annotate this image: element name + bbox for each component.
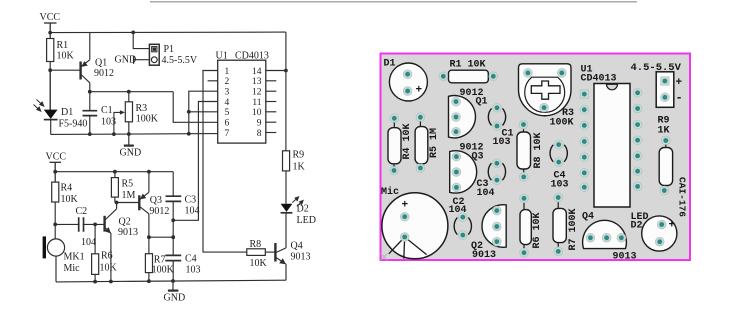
svg-text:C4: C4 bbox=[185, 254, 197, 265]
svg-text:103: 103 bbox=[493, 137, 511, 148]
pad U1 right 2 bbox=[633, 104, 642, 113]
pad Q3 c bbox=[452, 183, 461, 192]
wire node to Q1 base bbox=[50, 69, 80, 71]
node R7 bottom on ground rail bbox=[147, 279, 151, 283]
node R6 bottom on ground rail bbox=[93, 280, 97, 284]
PCB potentiometer R3 footprint bbox=[519, 64, 572, 116]
Q3 emitter arrow (PNP, into base) bbox=[140, 194, 146, 200]
svg-text:104: 104 bbox=[185, 206, 200, 217]
svg-text:9013: 9013 bbox=[613, 252, 637, 263]
pad P1 plus (square) bbox=[661, 77, 669, 85]
PCB resistor R5 footprint bbox=[415, 127, 428, 164]
pad mic + bbox=[400, 212, 409, 221]
D1 incident light arrows bbox=[34, 100, 44, 112]
R3 rotor circle bbox=[525, 77, 565, 112]
pad D2 anode bbox=[657, 220, 666, 229]
pad C3 top bbox=[493, 159, 502, 168]
PCB resistor R4 footprint bbox=[388, 128, 401, 164]
pad C1 top bbox=[493, 103, 502, 112]
wire U1 pin 9 stub bbox=[266, 121, 277, 123]
pad R6 bottom bbox=[520, 248, 529, 257]
wire R9 to D2 bbox=[285, 171, 287, 204]
wire mic node to C2 to Q2 base bbox=[55, 223, 104, 225]
svg-text:10K: 10K bbox=[250, 258, 268, 269]
pad R1 right bbox=[489, 72, 498, 81]
PCB resistor R8 footprint bbox=[517, 132, 531, 169]
wire ground rail (top section) to U1 pin 7 bbox=[51, 133, 218, 136]
pad C1 bottom bbox=[493, 122, 502, 131]
svg-text:1K: 1K bbox=[658, 126, 670, 137]
wire VCC drop to R9 bbox=[285, 32, 287, 151]
svg-text:4.5-5.5V: 4.5-5.5V bbox=[162, 55, 198, 66]
svg-text:VCC: VCC bbox=[46, 152, 67, 163]
transistor Q4 bbox=[275, 243, 286, 280]
svg-text:+: + bbox=[676, 77, 683, 89]
node Q1 collector junction bbox=[88, 90, 92, 94]
Q1 emitter arrow (PNP, into base) bbox=[81, 61, 87, 67]
svg-text:104: 104 bbox=[81, 237, 96, 248]
wire VCC top rail bbox=[50, 31, 286, 34]
pad Q1 e bbox=[452, 97, 461, 106]
pad Q2 e bbox=[492, 206, 501, 215]
capacitor C1 bbox=[83, 92, 98, 135]
wire ground rail (bottom section) bbox=[56, 280, 286, 282]
node Q3 emitter on VCC rail bbox=[147, 170, 151, 174]
svg-text:-: - bbox=[676, 91, 683, 105]
svg-text:C1: C1 bbox=[101, 105, 113, 116]
svg-text:R6 10K: R6 10K bbox=[532, 212, 543, 248]
svg-text:100K: 100K bbox=[152, 264, 175, 275]
svg-text:9012: 9012 bbox=[149, 206, 169, 217]
PCB transistor Q4 footprint bbox=[583, 220, 627, 248]
PCB transistor Q3 footprint bbox=[450, 151, 477, 193]
resistor R5 bbox=[111, 178, 118, 198]
GND terminal tick at P1 bbox=[133, 56, 135, 64]
svg-text:MK1: MK1 bbox=[64, 252, 85, 263]
PCB microphone footprint bbox=[382, 193, 448, 259]
svg-text:10K: 10K bbox=[100, 263, 118, 274]
pad R7 top bbox=[554, 193, 563, 202]
pad Q4 e bbox=[586, 233, 595, 242]
node C4 bottom / GND stub bbox=[171, 279, 175, 283]
svg-text:+: + bbox=[416, 85, 423, 97]
svg-text:Mic: Mic bbox=[381, 186, 399, 198]
pad mic - bbox=[400, 233, 409, 242]
wire collector rail to U1 pin 6 bbox=[173, 92, 218, 123]
pad R4 top bbox=[390, 114, 399, 123]
svg-text:1M: 1M bbox=[122, 190, 136, 201]
pad U1 left 5 bbox=[580, 153, 589, 162]
node R5 top on VCC rail bbox=[113, 170, 117, 174]
R3 screw slot bbox=[531, 81, 560, 99]
VCC symbol (top) bbox=[44, 23, 57, 39]
pad C3 bottom bbox=[493, 176, 502, 185]
scan artifact line bbox=[150, 1, 637, 2]
svg-text:104: 104 bbox=[449, 205, 467, 216]
pad Q1 b bbox=[452, 113, 461, 122]
pad U1 right 5 bbox=[633, 152, 642, 161]
wire R3 bottom bbox=[128, 122, 130, 134]
wire VCC rail to P1 pin 1 bbox=[133, 32, 149, 48]
svg-text:1K: 1K bbox=[293, 162, 306, 173]
wire to R7 top bbox=[148, 237, 150, 254]
svg-text:Q4: Q4 bbox=[291, 241, 303, 252]
wire U1 pin 8 stub bbox=[266, 132, 277, 134]
pad R3 left bbox=[524, 69, 533, 78]
transistor Q3 bbox=[139, 172, 149, 238]
resistor R6 bbox=[92, 254, 99, 275]
svg-text:14: 14 bbox=[252, 67, 262, 77]
resistor R9 bbox=[283, 151, 290, 171]
PCB resistor R6 footprint bbox=[520, 210, 531, 245]
svg-text:GND: GND bbox=[164, 293, 186, 304]
svg-text:9013: 9013 bbox=[118, 227, 138, 238]
svg-text:R4: R4 bbox=[61, 183, 73, 194]
svg-text:R8: R8 bbox=[250, 239, 262, 250]
pad R7 bottom bbox=[554, 247, 563, 256]
wire U1 pin 10 stub bbox=[266, 111, 277, 113]
pad U1 left 2 bbox=[580, 105, 589, 114]
node pin 14 on VCC drop bbox=[284, 69, 288, 73]
wire R5 top bbox=[114, 172, 116, 178]
svg-text:D1: D1 bbox=[384, 59, 396, 70]
svg-text:Q2: Q2 bbox=[119, 217, 131, 228]
svg-text:9012: 9012 bbox=[94, 68, 114, 79]
svg-text:10K: 10K bbox=[57, 51, 75, 62]
node VCC rail junction at R1 top bbox=[48, 31, 52, 35]
Q2 emitter arrow (NPN, out) bbox=[105, 227, 111, 233]
wire U1 pin 1 to R8 bbox=[203, 71, 247, 253]
node R6 top junction bbox=[93, 223, 97, 227]
photodiode D1 F5-940 bbox=[44, 70, 58, 134]
svg-text:R4 10K: R4 10K bbox=[402, 123, 413, 159]
PCB capacitor C4 outline bbox=[550, 145, 567, 162]
capacitor C4 bbox=[165, 237, 181, 280]
wire U1 pin 12 stub bbox=[266, 90, 277, 92]
wire to Q3 base bbox=[115, 202, 139, 204]
node C4 top junction bbox=[171, 235, 175, 239]
capacitor C3 bbox=[166, 172, 182, 221]
pad R1 left bbox=[439, 72, 448, 81]
pad Q4 c bbox=[617, 233, 626, 242]
node R5/Q2 collector/Q3 base bbox=[115, 201, 119, 205]
svg-text:+: + bbox=[402, 200, 409, 212]
microphone MK1 bbox=[43, 224, 65, 282]
D2 emitted light arrows bbox=[292, 197, 303, 207]
pad R3 wiper bbox=[540, 103, 549, 112]
svg-text:10: 10 bbox=[252, 108, 262, 118]
svg-text:D1: D1 bbox=[61, 107, 73, 118]
PCB transistor Q2 footprint bbox=[482, 205, 506, 248]
resistor R8 bbox=[247, 249, 265, 256]
pad C4 top bbox=[554, 140, 563, 149]
pad R6 top bbox=[520, 194, 529, 203]
pad R5 top bbox=[416, 113, 425, 122]
pad R9 top bbox=[661, 136, 670, 145]
transistor Q1 bbox=[81, 33, 90, 92]
node P1 branch on VCC rail bbox=[131, 31, 135, 35]
component lead stubs bbox=[394, 122, 666, 249]
PCB LED D2 footprint bbox=[642, 216, 677, 251]
pad C2 bottom bbox=[458, 231, 467, 240]
svg-text:R1: R1 bbox=[57, 40, 69, 51]
PCB resistor R7 footprint bbox=[553, 208, 566, 242]
svg-text:Q3: Q3 bbox=[150, 195, 162, 206]
svg-text:5: 5 bbox=[225, 108, 230, 118]
svg-text:CD4013: CD4013 bbox=[235, 51, 269, 62]
svg-text:100K: 100K bbox=[136, 113, 159, 124]
PCB resistor R1 footprint bbox=[449, 70, 489, 83]
svg-text:9013: 9013 bbox=[472, 250, 496, 261]
pad P1 minus bbox=[661, 93, 670, 102]
svg-text:7: 7 bbox=[225, 129, 230, 139]
transistor Q2 bbox=[105, 203, 117, 282]
LED D2 bbox=[281, 204, 293, 248]
PCB diode D1 footprint bbox=[389, 63, 427, 101]
pad D2 cathode bbox=[655, 237, 664, 246]
node VCC rail junction (bottom) bbox=[53, 170, 57, 174]
wire U1 pin 11 stub bbox=[266, 101, 277, 103]
node C3 bottom / pin4 net bbox=[171, 218, 175, 222]
wire U1 pin 13 stub bbox=[266, 80, 277, 82]
node pin3 net on ground rail bbox=[187, 132, 191, 136]
Q4 emitter arrow (NPN, out) bbox=[279, 258, 286, 264]
svg-text:U1: U1 bbox=[216, 51, 228, 62]
mic vent lines bbox=[389, 237, 427, 259]
pad R8 bottom bbox=[519, 173, 528, 182]
node R4/mic/C2 junction bbox=[53, 223, 57, 227]
wire to R6 top bbox=[94, 224, 96, 253]
pad U1 right 1 bbox=[633, 88, 642, 97]
pad R3 right bbox=[557, 69, 566, 78]
svg-text:F5-940: F5-940 bbox=[59, 119, 88, 130]
svg-text:3: 3 bbox=[225, 88, 230, 98]
wire R4 bottom bbox=[54, 202, 56, 224]
svg-text:6: 6 bbox=[225, 119, 230, 129]
svg-text:Q1: Q1 bbox=[476, 97, 488, 108]
PCB IC U1 footprint bbox=[594, 84, 630, 208]
svg-text:C3: C3 bbox=[185, 195, 197, 206]
svg-text:R9: R9 bbox=[293, 150, 305, 161]
svg-text:11: 11 bbox=[252, 98, 261, 108]
pad U1 right 6 bbox=[633, 167, 642, 176]
svg-text:LED: LED bbox=[297, 215, 316, 226]
R3 wiper arrow bbox=[114, 112, 122, 134]
pad Q2 c bbox=[492, 237, 501, 246]
svg-text:R7 100K: R7 100K bbox=[568, 208, 579, 250]
resistor R4 bbox=[52, 182, 59, 202]
svg-text:9: 9 bbox=[257, 119, 262, 129]
PCB board background bbox=[381, 54, 691, 261]
svg-text:4.5-5.5V: 4.5-5.5V bbox=[631, 62, 682, 74]
node pin 5 junction on pin3 net bbox=[187, 110, 191, 114]
pad Q3 e bbox=[452, 152, 461, 161]
wire U1 pin 4 to C3 node bbox=[173, 102, 218, 221]
node R3 wiper on ground rail bbox=[112, 132, 116, 136]
wire R8 to Q4 base bbox=[265, 251, 275, 253]
wire R1 bottom to D1 anode bbox=[49, 62, 51, 111]
pad U1 left 3 bbox=[580, 121, 589, 130]
svg-text:D2: D2 bbox=[297, 204, 309, 215]
svg-text:Q4: Q4 bbox=[582, 212, 594, 223]
wire U1 pin 14 to VCC line bbox=[266, 70, 286, 72]
pad U1 right 3 bbox=[633, 120, 642, 129]
pad U1 left 6 bbox=[580, 169, 589, 178]
PCB capacitor C2 outline bbox=[454, 218, 471, 235]
wire U1 pin 2 stub bbox=[208, 80, 218, 82]
pad C2 top bbox=[458, 213, 467, 222]
PCB capacitor C3 outline bbox=[488, 163, 505, 180]
capacitor C2 bbox=[79, 217, 84, 232]
svg-text:GND: GND bbox=[120, 148, 142, 159]
PCB transistor Q1 footprint bbox=[449, 96, 476, 138]
wire R7 bottom bbox=[148, 273, 150, 281]
node R3 top junction bbox=[127, 90, 131, 94]
wire VCC rail (bottom section) bbox=[55, 171, 173, 173]
pad D1 anode bbox=[403, 87, 412, 96]
VCC symbol (bottom) bbox=[50, 162, 62, 182]
wire P1 pin 2 to GND tick bbox=[134, 59, 150, 61]
pad U1 left 7 bbox=[580, 183, 589, 192]
x mark bottom-left corner bbox=[381, 254, 387, 261]
PCB resistor R9 footprint bbox=[659, 148, 672, 186]
svg-text:R5 1M: R5 1M bbox=[429, 128, 440, 158]
svg-text:P1: P1 bbox=[164, 44, 175, 55]
pad U1 left 4 bbox=[580, 137, 589, 146]
svg-text:8: 8 bbox=[257, 129, 262, 139]
svg-text:103: 103 bbox=[186, 265, 201, 276]
wire Q3 collector to C3/C4 column bbox=[149, 236, 173, 238]
svg-text:C2: C2 bbox=[76, 206, 88, 217]
pad U1 pin 14 (square) bbox=[580, 90, 588, 98]
svg-text:Q3: Q3 bbox=[472, 152, 484, 163]
ground symbol below R3 bbox=[124, 134, 134, 146]
svg-text:CD4013: CD4013 bbox=[581, 74, 617, 85]
resistor R3 body bbox=[125, 102, 132, 122]
node C1 bottom on ground rail bbox=[88, 132, 92, 136]
svg-text:R1 10K: R1 10K bbox=[450, 60, 486, 71]
svg-text:Q1: Q1 bbox=[95, 58, 107, 69]
pad R9 bottom bbox=[660, 186, 669, 195]
pad Q4 b bbox=[602, 233, 611, 242]
svg-text:1: 1 bbox=[225, 67, 230, 77]
op-amp/IC U1 CD4013 body bbox=[218, 60, 266, 143]
node Q3 collector junction bbox=[147, 235, 151, 239]
pad Q2 b bbox=[492, 222, 501, 231]
wire R3 top bbox=[128, 92, 130, 102]
PCB capacitor C1 outline bbox=[488, 108, 505, 125]
node Q2 emitter on ground rail bbox=[109, 280, 113, 284]
wire R6 bottom bbox=[94, 274, 96, 281]
wire Q1 collector rail bbox=[90, 91, 173, 93]
svg-text:104: 104 bbox=[477, 188, 495, 199]
svg-text:+: + bbox=[669, 220, 676, 232]
pad U1 right 4 bbox=[633, 136, 642, 145]
svg-text:R8 10K: R8 10K bbox=[533, 132, 544, 168]
wire U1 pin 3 to ground rail bbox=[189, 91, 218, 134]
wire R5 bottom bbox=[114, 197, 116, 202]
svg-text:100K: 100K bbox=[550, 118, 574, 129]
resistor R1 bbox=[47, 39, 54, 62]
pad C4 bottom bbox=[554, 158, 563, 167]
ground symbol (bottom section) bbox=[168, 281, 179, 291]
wire U1 pin 5 bbox=[189, 111, 218, 113]
svg-text:Mic: Mic bbox=[64, 263, 81, 274]
pad Q1 c bbox=[452, 127, 461, 136]
svg-text:R5: R5 bbox=[122, 179, 134, 190]
wire C3 node down bbox=[172, 220, 174, 237]
pad R8 top bbox=[519, 120, 528, 129]
svg-text:103: 103 bbox=[551, 180, 569, 191]
node R1/D1/Q1-base junction bbox=[48, 68, 52, 72]
pad U1 right 7 bbox=[633, 182, 642, 191]
svg-text:13: 13 bbox=[252, 77, 262, 87]
svg-text:2: 2 bbox=[225, 77, 230, 87]
svg-text:10K: 10K bbox=[61, 194, 79, 205]
svg-text:GND: GND bbox=[115, 55, 137, 66]
svg-text:12: 12 bbox=[252, 88, 262, 98]
connector P1 bbox=[149, 44, 159, 65]
pad R4 bottom bbox=[390, 166, 399, 175]
pad R5 bottom bbox=[416, 164, 425, 173]
pad Q3 b bbox=[452, 168, 461, 177]
svg-text:D2: D2 bbox=[631, 221, 643, 232]
U1 notch bbox=[607, 84, 618, 90]
svg-text:9013: 9013 bbox=[291, 252, 311, 263]
svg-text:VCC: VCC bbox=[40, 12, 61, 23]
pad D1 cathode bbox=[403, 70, 412, 79]
svg-text:CAI-176: CAI-176 bbox=[677, 177, 688, 217]
PCB connector P1 footprint bbox=[656, 72, 674, 108]
svg-text:4: 4 bbox=[225, 98, 230, 108]
node R3 bottom on ground rail bbox=[127, 132, 131, 136]
resistor R7 bbox=[145, 254, 152, 273]
